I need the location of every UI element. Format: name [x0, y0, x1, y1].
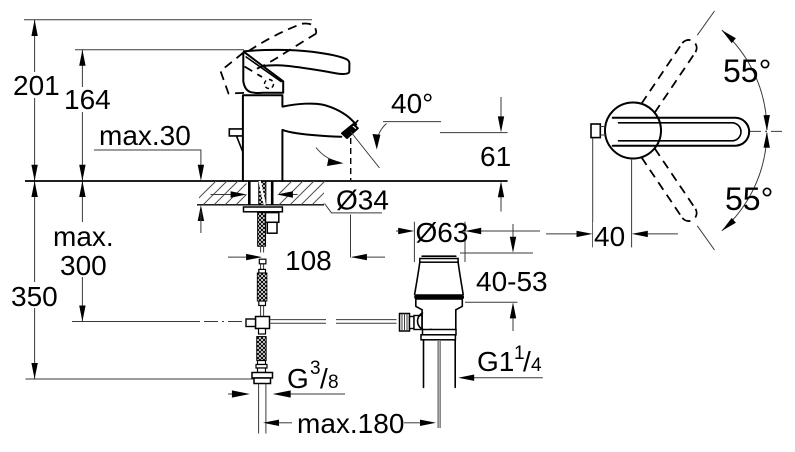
T junction body — [256, 317, 270, 329]
trumpet flare — [415, 262, 464, 294]
svg-text:G: G — [287, 363, 309, 394]
valve body — [422, 310, 456, 330]
svg-text:4: 4 — [531, 355, 542, 376]
hose cap 2a — [259, 269, 266, 273]
svg-text:Ø63: Ø63 — [416, 217, 469, 248]
Ø34 left arrow — [211, 194, 232, 196]
40deg angled line — [351, 132, 380, 169]
label 201 — [10, 72, 60, 98]
dashed lever down edge B — [642, 157, 683, 218]
G3/8 nut — [252, 373, 273, 379]
mounting nut upper — [265, 213, 278, 223]
arrow max30 up — [198, 205, 204, 221]
deck bottom line — [197, 204, 326, 206]
spout upper edge — [283, 104, 357, 125]
40 extension lines — [593, 138, 632, 247]
dimension line 201/350 vertical — [34, 20, 36, 379]
arrow 164 bottom — [79, 165, 85, 181]
handle cone — [243, 52, 283, 93]
tailpipe inner lines — [438, 341, 440, 428]
svg-text:40°: 40° — [391, 88, 433, 119]
40-53 dimension — [512, 224, 514, 331]
Ø63 extension lines — [414, 222, 465, 262]
label box Ø34 — [324, 183, 389, 213]
ball joint arc — [418, 313, 431, 330]
dashed lever up edge A — [655, 52, 696, 113]
Ø34 right arrow — [293, 194, 298, 196]
max.180 dimension — [263, 420, 279, 426]
swivel arrowhead — [327, 158, 344, 166]
svg-text:55°: 55° — [725, 181, 773, 217]
top view: lever inner — [619, 123, 742, 141]
40 dimension arrows — [546, 233, 577, 235]
T junction nipple below — [259, 329, 266, 335]
dashed lever upper edge — [249, 24, 302, 51]
arrow max300 bottom — [79, 306, 85, 322]
solid lever — [244, 50, 350, 74]
svg-text:/: / — [523, 346, 531, 377]
arc upper arrowheads — [722, 30, 736, 43]
svg-text:Ø34: Ø34 — [336, 185, 389, 216]
cone inner edge — [246, 57, 281, 82]
label 164 — [61, 87, 111, 112]
top view: handle boss circle — [605, 103, 661, 159]
dashed pivot circle — [265, 80, 274, 89]
dashed lever up edge B — [642, 43, 683, 104]
dimension line 164/max300 vertical — [81, 50, 83, 322]
svg-text:201: 201 — [13, 70, 60, 101]
G3/8 dim arrows — [228, 393, 234, 395]
max.30 underline — [94, 150, 201, 171]
dashed lever up cap — [682, 40, 696, 52]
aerator outline — [342, 124, 358, 138]
svg-text:3: 3 — [310, 358, 321, 379]
dashed cone inner — [245, 67, 263, 78]
shank wall left — [248, 181, 251, 205]
shank wall right (stud) — [271, 181, 274, 205]
svg-text:40: 40 — [594, 221, 625, 252]
svg-text:55°: 55° — [723, 53, 771, 89]
40deg horizontal line — [383, 121, 441, 123]
spout lower edge — [283, 130, 342, 137]
108 extension line — [350, 215, 352, 258]
extension line 350 bottom — [26, 378, 267, 380]
water stream dashed — [350, 138, 352, 180]
svg-text:G1: G1 — [477, 346, 514, 377]
extension line down — [697, 226, 714, 250]
thread slit — [260, 181, 265, 205]
top view: lever outer — [613, 118, 749, 146]
svg-text:/: / — [320, 363, 328, 394]
braided hose in deck — [259, 181, 266, 205]
svg-text:350: 350 — [11, 281, 58, 312]
supply pipe below — [259, 384, 266, 434]
arc upper 55 — [722, 30, 767, 130]
pop-up rod horizontal — [270, 320, 397, 324]
top view: left tab — [591, 124, 600, 138]
svg-text:108: 108 — [285, 245, 332, 276]
arrow max300 top — [79, 181, 85, 197]
braided hose segment 2 — [257, 273, 267, 301]
label Ø63 — [416, 219, 464, 243]
arc lower 55 — [722, 133, 767, 231]
svg-text:8: 8 — [328, 372, 339, 393]
centerline dash-dot — [750, 130, 786, 132]
tailpipe — [424, 340, 456, 388]
40deg arc arrowhead — [373, 134, 381, 150]
washer plate — [244, 207, 283, 212]
dashed lever lower edge — [252, 34, 316, 71]
G1 1/4 leader — [474, 377, 543, 379]
Ø63 arrows — [396, 230, 399, 232]
drain knob steps — [410, 317, 415, 329]
aerator slot black — [343, 126, 356, 138]
mounting nut lower — [267, 222, 277, 233]
T junction left piece — [246, 319, 256, 327]
O-ring black — [414, 294, 464, 299]
deck top line — [25, 180, 508, 182]
40deg arc — [377, 124, 387, 147]
dashed lever cap — [302, 23, 316, 33]
arrow 350 top — [31, 181, 37, 197]
arrow 201 bottom — [31, 165, 37, 181]
label max.300 — [50, 222, 118, 277]
svg-text:300: 300 — [60, 250, 107, 281]
hose collar — [259, 259, 266, 264]
braided hose segment 1 — [258, 213, 266, 247]
extension line max300 bottom — [72, 321, 200, 323]
svg-text:max.180: max.180 — [297, 408, 404, 439]
arrow 350 bottom — [31, 363, 37, 379]
valve nut — [423, 330, 457, 335]
label 350 — [8, 282, 63, 308]
arrow 201 top — [31, 20, 37, 36]
braided hose segment 3 — [257, 337, 267, 361]
spout tip face — [354, 121, 358, 125]
dashed lever down cap — [682, 209, 696, 221]
swivel arc — [316, 148, 340, 163]
dashed cone outline — [221, 53, 248, 94]
fitting rings — [258, 361, 266, 365]
hose cap 2b — [259, 301, 266, 306]
pop-up rod knob — [229, 129, 242, 151]
arrow 164 top — [79, 50, 85, 66]
arrow max30 down — [198, 165, 204, 181]
faucet body — [243, 95, 283, 181]
extension line up — [697, 11, 714, 35]
svg-text:164: 164 — [64, 84, 111, 115]
drain knob knurled — [400, 314, 410, 332]
deck hatching right — [268, 181, 347, 205]
flange below ring — [416, 300, 463, 310]
extension line 164 top — [75, 49, 244, 51]
61 dim arrows — [500, 97, 502, 212]
108 dimension — [228, 256, 246, 258]
dashed lever down edge A — [655, 148, 696, 209]
valve cap top — [422, 255, 456, 257]
extension line 201 top — [24, 19, 312, 21]
svg-text:40-53: 40-53 — [476, 266, 548, 297]
deck hatching left — [192, 181, 271, 205]
svg-text:max.30: max.30 — [99, 120, 191, 151]
arc lower arrowheads — [722, 218, 736, 231]
40-53 extension lines — [460, 253, 533, 302]
61 datum line — [440, 132, 508, 134]
label 40-53 — [474, 267, 544, 294]
svg-text:max.: max. — [53, 221, 114, 252]
hose tube thin 2 — [261, 306, 264, 317]
label 40 top view — [593, 222, 629, 248]
svg-text:61: 61 — [480, 141, 511, 172]
hose tube thin 1 — [261, 246, 264, 269]
